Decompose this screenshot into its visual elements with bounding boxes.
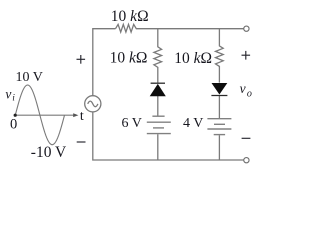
svg-text:10 kΩ: 10 kΩ — [110, 49, 148, 66]
svg-text:10 kΩ: 10 kΩ — [111, 8, 149, 25]
svg-text:6 V: 6 V — [122, 116, 142, 131]
svg-text:o: o — [247, 89, 252, 100]
svg-text:v: v — [240, 81, 246, 96]
svg-text:4 V: 4 V — [183, 116, 203, 131]
svg-text:i: i — [12, 94, 15, 104]
svg-text:10 V: 10 V — [16, 70, 43, 85]
svg-text:10 kΩ: 10 kΩ — [174, 50, 212, 67]
svg-text:0: 0 — [10, 117, 17, 133]
svg-text:t: t — [80, 109, 84, 124]
svg-text:-10 V: -10 V — [31, 144, 67, 161]
svg-text:v: v — [5, 86, 11, 101]
